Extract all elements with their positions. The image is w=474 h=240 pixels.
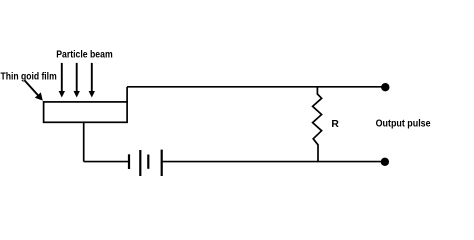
svg-text:Particle beam: Particle beam xyxy=(56,49,112,60)
svg-text:Thin goid film: Thin goid film xyxy=(1,72,57,83)
label "Thin goid film" xyxy=(1,72,57,83)
particle beam arrow 3 xyxy=(89,63,95,98)
svg-text:R: R xyxy=(331,119,339,130)
wire: top rail xyxy=(127,86,385,88)
label R xyxy=(331,119,339,130)
output terminal dot (bottom) xyxy=(381,158,389,166)
leader arrow to gold film xyxy=(25,81,43,101)
wire: gold film right edge up to top rail xyxy=(126,87,128,103)
battery (two cells) xyxy=(129,150,162,176)
thin gold film electrode (plate) xyxy=(44,102,128,122)
output terminal dot (top) xyxy=(381,83,389,91)
wire: gold film bottom lead down xyxy=(83,122,85,161)
particle beam arrow 2 xyxy=(74,63,80,98)
particle beam arrow 1 xyxy=(59,63,65,98)
wire: bottom lead to battery xyxy=(84,161,129,163)
svg-text:Output pulse: Output pulse xyxy=(376,118,431,129)
resistor R xyxy=(313,87,322,162)
wire: battery to bottom-right rail xyxy=(162,161,386,163)
label "Particle beam" xyxy=(56,49,112,60)
label "Output pulse" xyxy=(376,118,431,129)
